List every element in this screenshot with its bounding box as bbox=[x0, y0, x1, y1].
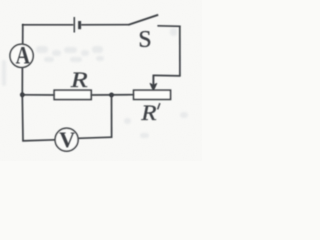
ammeter A1 circle bbox=[10, 44, 33, 67]
svg-text:V: V bbox=[59, 127, 75, 152]
left wire ammeter bottom to bottom corner bbox=[21, 67, 24, 140]
rheostat label prime mark bbox=[158, 103, 160, 109]
wire top-left horizontal bbox=[22, 24, 73, 26]
wire to rheostat wiper bbox=[153, 74, 180, 77]
rheostat wiper arrow shaft bbox=[152, 75, 154, 86]
wire right junction to resistor R bbox=[91, 94, 112, 96]
left wire ammeter top bbox=[22, 24, 24, 44]
wire right side down bbox=[179, 26, 181, 77]
rheostat wiper arrowhead bbox=[150, 83, 157, 91]
voltmeter V1 circle bbox=[55, 128, 78, 151]
rheostat R' box bbox=[134, 90, 171, 99]
battery cell short plate (-) bbox=[78, 21, 81, 29]
wire bottom left to voltmeter bbox=[22, 140, 55, 141]
switch S blade bbox=[128, 15, 158, 25]
wire resistor R to left junction bbox=[21, 94, 54, 96]
junction dot left bbox=[20, 92, 25, 97]
svg-text:R: R bbox=[140, 101, 157, 126]
svg-text:A: A bbox=[16, 42, 31, 70]
junction dot right bbox=[109, 93, 114, 98]
svg-text:R: R bbox=[70, 68, 88, 92]
wire battery to switch bbox=[81, 24, 128, 26]
battery cell long plate (+) bbox=[73, 17, 75, 33]
switch right contact wire bbox=[157, 25, 180, 28]
svg-text:S: S bbox=[138, 25, 151, 52]
resistor R box bbox=[54, 90, 91, 99]
voltmeter riser wire bbox=[111, 95, 113, 138]
paper background bbox=[0, 0, 202, 161]
wire rheostat to right junction bbox=[111, 94, 134, 96]
wire voltmeter to right riser bbox=[78, 137, 112, 138]
